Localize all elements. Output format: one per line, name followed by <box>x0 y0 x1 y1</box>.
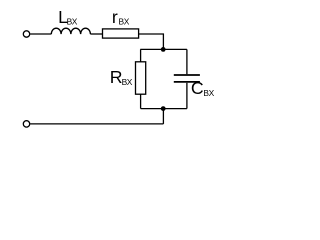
svg-text:ВХ: ВХ <box>67 16 78 26</box>
svg-text:r: r <box>112 7 118 27</box>
svg-text:ВХ: ВХ <box>203 88 214 98</box>
svg-text:R: R <box>110 67 123 87</box>
svg-text:ВХ: ВХ <box>122 77 133 87</box>
svg-text:ВХ: ВХ <box>119 16 130 26</box>
svg-text:C: C <box>191 78 204 98</box>
